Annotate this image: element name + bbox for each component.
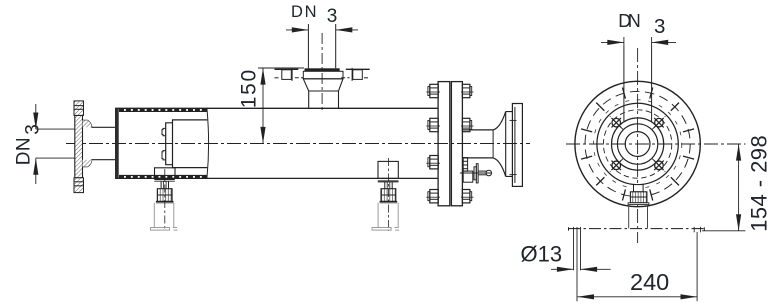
girth flange bolt row 4 right xyxy=(462,190,470,203)
end flange hub xyxy=(506,112,513,177)
bolt hole ticks xyxy=(581,87,694,200)
girth flange bolt row 2 right xyxy=(462,118,470,131)
end view vertical centerline xyxy=(637,48,639,243)
support leg 2 phantom foot xyxy=(372,203,399,230)
wire: vessel centerline xyxy=(66,143,530,145)
internal liner tab A xyxy=(162,128,166,135)
support leg 1 pad xyxy=(155,168,176,179)
end view bolt lower-left xyxy=(612,161,621,170)
support leg 1 stem and nut xyxy=(160,181,162,189)
label DN 3 right view xyxy=(618,11,665,38)
flange outer circle xyxy=(575,81,700,206)
internal liner end cap xyxy=(166,123,173,165)
inner circle A xyxy=(612,118,664,170)
top nozzle pipe xyxy=(307,24,309,68)
nozzle projection lines xyxy=(623,47,625,122)
bolt circle dashed xyxy=(585,91,690,196)
girth flange bolt row 1 left xyxy=(428,87,430,96)
tubesheet closure plate xyxy=(115,108,119,178)
left nozzle flange plate xyxy=(75,115,83,177)
svg-text:DN: DN xyxy=(291,3,317,21)
foot washer right view xyxy=(628,203,649,205)
foot legs right view xyxy=(628,205,630,229)
foot stud right view xyxy=(634,185,644,192)
girth flange bolts xyxy=(426,84,473,203)
svg-text:150: 150 xyxy=(238,70,261,109)
girth flange bolt row 3 left xyxy=(428,158,430,167)
support leg 2 centerline xyxy=(388,158,390,231)
svg-text:Ø13: Ø13 xyxy=(521,242,563,267)
svg-text:3: 3 xyxy=(654,15,665,38)
baseplate phantom line xyxy=(569,228,705,230)
top nozzle neck xyxy=(308,91,310,108)
inner circle B xyxy=(617,124,657,164)
svg-text:154 - 298: 154 - 298 xyxy=(747,135,772,232)
top nozzle hub trapezoid xyxy=(303,79,343,91)
section break curve xyxy=(207,108,209,178)
internal liner xyxy=(173,120,208,168)
dimension DN3 top xyxy=(286,29,358,31)
foot nut right view xyxy=(630,192,647,203)
end view bolt upper-right xyxy=(655,118,664,127)
end view horizontal centerline xyxy=(566,143,746,145)
girth flange pair xyxy=(438,82,450,206)
dimension Ø13 xyxy=(551,227,611,301)
drain stub xyxy=(460,158,492,183)
dimension 154-298 xyxy=(702,144,746,231)
left flange hub and pipe xyxy=(83,120,116,166)
hidden shell circle xyxy=(603,110,671,178)
end view bolt lower-right xyxy=(655,161,664,170)
top nozzle flange joint xyxy=(305,68,340,71)
raised face circle xyxy=(597,103,678,184)
shell wall section bottom band xyxy=(119,174,207,176)
dimension DN3 right xyxy=(601,37,676,47)
girth flange bolt row 2 left xyxy=(428,121,430,130)
support leg 2 stem and nut xyxy=(384,182,386,189)
girth flange bolt row 1 right xyxy=(462,84,470,97)
top flange bolt left xyxy=(275,68,304,81)
left flange stud bottom xyxy=(74,178,84,193)
dimension DN3 left xyxy=(35,104,37,184)
bore circle xyxy=(625,132,650,157)
svg-text:DN: DN xyxy=(14,137,35,165)
svg-text:3: 3 xyxy=(327,6,338,27)
right pipe xyxy=(463,129,494,131)
shell outline xyxy=(115,107,438,109)
dimension 150 xyxy=(258,68,304,144)
cone reducer xyxy=(492,130,494,158)
svg-text:3: 3 xyxy=(23,124,44,135)
hidden end flange circle xyxy=(593,100,681,188)
support leg 2 pad xyxy=(378,161,398,178)
svg-text:240: 240 xyxy=(630,269,669,295)
internal liner tab B xyxy=(162,151,166,160)
inner flange bolts with crosses xyxy=(610,116,665,171)
dimension 240 xyxy=(577,232,697,301)
top nozzle centerline xyxy=(321,33,323,113)
baseplate right hole xyxy=(693,227,695,233)
support leg 1 centerline xyxy=(164,169,166,231)
end flange raised face lines xyxy=(510,119,517,121)
shell wall section top band xyxy=(119,110,207,112)
label DN 3 left side xyxy=(14,124,44,165)
girth flange bolt row 4 left xyxy=(428,192,430,201)
label DN 3 left nozzle xyxy=(291,3,337,27)
left flange stud top xyxy=(74,101,84,116)
end view bolt upper-left xyxy=(612,118,621,127)
end flange disc xyxy=(512,104,522,187)
support leg 1 phantom foot xyxy=(151,203,178,230)
top flange bolt right xyxy=(341,68,370,81)
left nozzle bore extension lines xyxy=(36,128,75,130)
svg-text:DN: DN xyxy=(618,11,641,31)
